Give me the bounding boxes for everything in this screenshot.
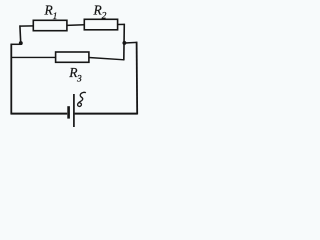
node junction dot right xyxy=(122,41,126,45)
wire right short horizontal xyxy=(124,41,137,44)
label R2 xyxy=(93,2,107,21)
wire right outer vertical xyxy=(136,42,139,115)
wire left short horizontal xyxy=(11,43,21,45)
wire right branch vertical xyxy=(123,24,126,61)
label EMF script E xyxy=(78,92,86,106)
label R1 xyxy=(44,3,58,22)
svg-text:2: 2 xyxy=(102,12,107,22)
wire between R1 and R2 xyxy=(67,24,85,27)
battery long plate xyxy=(73,94,75,127)
wire left branch vertical xyxy=(19,25,22,44)
node junction dot left xyxy=(19,41,23,45)
wire R3 left xyxy=(11,56,56,58)
svg-text:1: 1 xyxy=(53,12,58,22)
wire bottom left xyxy=(11,113,68,115)
wire bottom right xyxy=(75,113,138,115)
resistor R3 xyxy=(56,52,89,62)
wire top-left horizontal xyxy=(20,25,34,27)
wire R3 right xyxy=(89,58,124,60)
wire left outer vertical xyxy=(10,44,12,115)
label R3 xyxy=(68,65,82,84)
svg-text:3: 3 xyxy=(76,75,82,85)
wire R2 to right corner xyxy=(118,23,125,25)
resistor R2 xyxy=(84,19,117,30)
resistor R1 xyxy=(33,20,67,30)
battery short plate xyxy=(67,106,70,118)
